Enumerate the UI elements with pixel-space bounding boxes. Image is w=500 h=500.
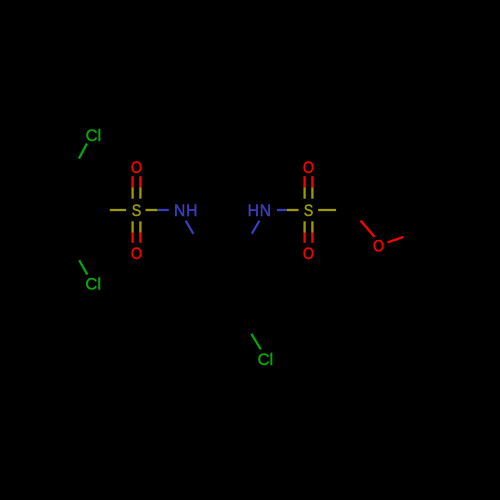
svg-text:S: S (132, 202, 142, 220)
atom N2 label (HN) (248, 201, 272, 220)
svg-text:O: O (373, 237, 384, 255)
svg-text:O: O (303, 245, 314, 263)
svg-text:S: S (304, 202, 314, 220)
bond N2-S2 (nitrogen half) (277, 209, 287, 211)
atom S1 label (132, 202, 142, 220)
bond N1-C1' (nitrogen half) (186, 221, 194, 234)
svg-text:Cl: Cl (86, 126, 102, 145)
atom Cl2 label (85, 274, 101, 293)
double bond S1=O1b (lower, line 2) (139, 221, 141, 243)
atom O1f label (furan oxygen) (373, 237, 384, 255)
double bond S2=O2a (upper, line 2) (311, 176, 313, 199)
bond C4'-Cl3 (green half) (251, 334, 260, 349)
bond C2-Cl1 (green half) (79, 144, 87, 159)
atom O1a label (131, 159, 142, 177)
bond N2-C2' (nitrogen half) (252, 221, 260, 234)
bond O1f-C5f (oxygen half, furan) (388, 237, 404, 243)
svg-text:O: O (131, 245, 142, 263)
svg-text:O: O (303, 159, 314, 177)
atom Cl3 label (258, 350, 274, 369)
svg-text:Cl: Cl (258, 350, 274, 369)
bond C6-Cl2 (green half) (79, 260, 87, 274)
atom O1b label (131, 245, 142, 263)
bond S1-N1 (sulfur half) (146, 209, 158, 211)
double bond S2=O2b (lower, line 1) (303, 221, 305, 243)
double bond S2=O2b (lower, line 2) (311, 221, 313, 243)
svg-text:HN: HN (248, 201, 272, 220)
double bond S1=O1a (upper, line 1) (131, 176, 133, 199)
atom O2b label (303, 245, 314, 263)
bond S1-N1 (nitrogen half) (157, 209, 169, 211)
atom N1 label (NH) (174, 201, 198, 220)
svg-text:Cl: Cl (85, 274, 101, 293)
atom O2a label (303, 159, 314, 177)
double bond S1=O1a (upper, line 2) (139, 176, 141, 199)
atom S2 label (304, 202, 314, 220)
double bond S2=O2a (upper, line 1) (303, 176, 305, 199)
atom Cl1 label (86, 126, 102, 145)
bond C1-S1 (sulfur half) (110, 209, 126, 211)
svg-text:O: O (131, 159, 142, 177)
bond S2-C2f (sulfur half) (318, 209, 336, 211)
bond O1f-C2f (oxygen half, furan) (361, 221, 375, 237)
svg-text:NH: NH (174, 201, 198, 220)
double bond S1=O1b (lower, line 1) (131, 221, 133, 243)
bond N2-S2 (sulfur half) (287, 209, 299, 211)
